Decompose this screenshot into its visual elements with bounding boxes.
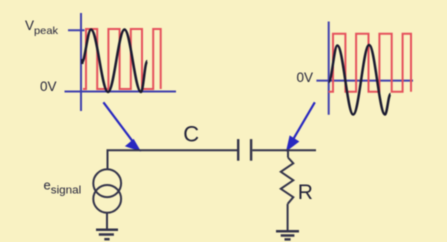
wire: source bottom to ground: [106, 213, 108, 229]
right plot red square wave: [329, 34, 412, 92]
svg-text:0V: 0V: [40, 79, 57, 94]
svg-text:R: R: [298, 181, 313, 204]
capacitor C plate 2: [250, 139, 252, 161]
capacitor C plate 1: [237, 139, 239, 161]
ground (resistor): [276, 231, 299, 239]
wire: output node down to resistor: [287, 150, 289, 157]
svg-text:C: C: [183, 121, 199, 146]
ground (source): [96, 230, 118, 239]
wire: resistor to ground: [287, 204, 289, 231]
left plot black sine wave: [82, 30, 148, 93]
blue arrow from right plot to output node: [288, 102, 315, 149]
wire: source to capacitor (with corner): [108, 150, 239, 169]
left plot vertical axis: [80, 13, 82, 111]
left plot red square wave: [83, 29, 161, 89]
right plot vertical axis: [328, 22, 330, 115]
wire: capacitor to output node and beyond: [252, 149, 316, 151]
right plot horizontal axis (0V): [316, 80, 413, 82]
left plot Vpeak tick: [68, 29, 85, 31]
left plot horizontal axis (0V): [65, 91, 177, 93]
resistor R zigzag: [281, 158, 294, 204]
source e_signal (overlapping circles): [93, 169, 121, 213]
blue arrow from left plot to input node: [103, 102, 138, 150]
right plot black sine wave: [329, 45, 391, 115]
svg-text:0V: 0V: [297, 70, 314, 85]
